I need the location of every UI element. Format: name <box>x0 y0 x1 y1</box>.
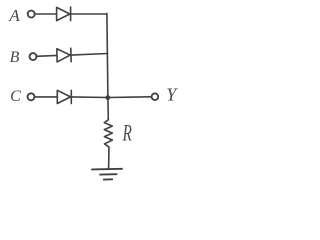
terminal B (input circle) <box>29 47 107 62</box>
wire C: diode D3 cathode to junction node <box>71 96 108 99</box>
wire C: terminal to diode D3 anode <box>35 96 58 98</box>
ground symbol <box>92 169 122 180</box>
wire B: terminal to diode D2 anode <box>37 54 57 57</box>
wire A: diode D1 cathode to top corner of bus <box>71 13 107 15</box>
resistor R (zigzag) <box>104 120 112 147</box>
wire: resistor bottom to ground <box>108 147 110 169</box>
wire: vertical bus from row A corner down to resistor top <box>107 13 108 119</box>
junction node (dot) <box>105 95 110 100</box>
diode D3 (input C) <box>57 90 71 103</box>
diode D2 (input B) <box>57 48 70 61</box>
wire: junction node to output terminal Y <box>108 96 151 99</box>
wire A: terminal to diode D1 anode <box>35 13 57 15</box>
terminal C (input circle) <box>28 93 35 100</box>
svg-text:Y: Y <box>166 85 178 105</box>
wire B: diode D2 cathode to bus <box>71 54 108 56</box>
svg-text:A: A <box>8 6 20 25</box>
terminal A (input circle) <box>28 11 35 18</box>
terminal Y (output circle) <box>152 93 159 100</box>
diode D1 (input A) <box>57 7 71 21</box>
svg-text:B: B <box>10 49 20 66</box>
svg-text:R: R <box>122 120 132 145</box>
svg-text:C: C <box>10 88 21 105</box>
